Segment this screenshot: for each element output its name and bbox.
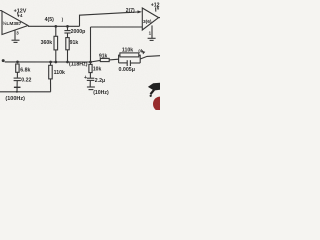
U2 ground pin: [151, 25, 153, 38]
resistor 110k (vertical): [50, 62, 52, 65]
resistor 110k: [120, 53, 139, 57]
wire top branch right: [139, 55, 141, 63]
node: rail/110k junction: [49, 61, 52, 64]
node: rail/6.8k junction: [16, 61, 19, 64]
corner artwork red blob: [153, 97, 160, 110]
ground rail bottom left: [0, 91, 51, 93]
parallel combo left branch: [119, 55, 121, 63]
wire: step up to U2 top rail: [80, 12, 138, 26]
capacitor 2000p: [67, 26, 69, 30]
node: rail/10k junction: [89, 61, 92, 64]
op-amp U2 (half LM387): [142, 8, 158, 30]
corner artwork black wedge: [148, 83, 160, 95]
ground (U2): [148, 37, 156, 39]
wire: feedback row left: [91, 60, 101, 62]
ground (10k chain): [87, 86, 95, 88]
resistor 10k: [89, 64, 92, 72]
node: rail/91k junction: [66, 61, 69, 64]
capacitor 0.22: [14, 77, 21, 79]
input terminal: [2, 59, 5, 62]
node: rail/360k junction: [54, 61, 57, 64]
U1 supply pin wire: [17, 13, 20, 17]
resistor 360k: [55, 26, 57, 36]
node: output/360k junction: [54, 25, 57, 28]
U1 ground pin wire: [14, 30, 16, 40]
wire: feedback to output: [140, 56, 160, 59]
wire: U1 output row: [28, 25, 80, 27]
corner artwork dot: [150, 95, 152, 97]
node: output/2000p junction: [66, 25, 69, 28]
op-amp U1 (half LM387): [2, 11, 28, 35]
wire: vertical from lower rail to bottom rail: [90, 27, 92, 64]
wire down from 0.22: [16, 81, 18, 92]
ground bar blob: [14, 86, 21, 88]
input stub into U1: [0, 10, 2, 12]
resistor 91k (vertical): [67, 33, 69, 38]
wire: bottom rail: [5, 61, 91, 63]
arrow mark: [142, 51, 145, 55]
wire: U2 lower input rail: [91, 26, 143, 28]
capacitor 2.2u: [87, 77, 95, 79]
wire arrow into U2: [138, 10, 143, 13]
wire to parallel combo: [109, 58, 118, 61]
U2 output stub: [159, 17, 160, 19]
resistor 6.8k: [16, 64, 19, 72]
ground (U1): [12, 39, 20, 41]
capacitor 0.005u: [119, 62, 128, 64]
resistor 91k (horizontal): [100, 58, 109, 61]
